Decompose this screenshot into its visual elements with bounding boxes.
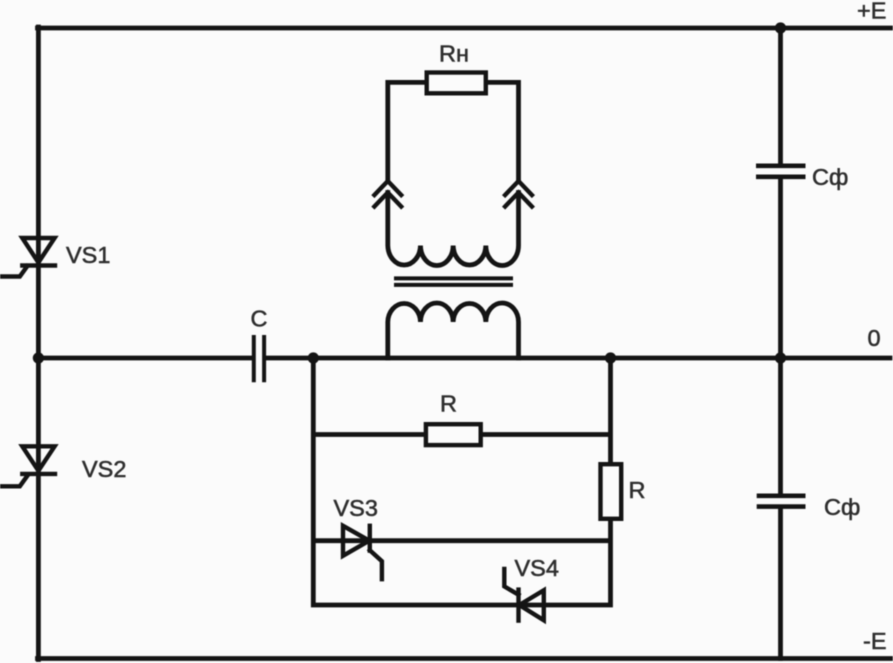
svg-text:VS3: VS3: [334, 495, 378, 521]
svg-text:VS2: VS2: [82, 456, 126, 482]
svg-text:VS4: VS4: [515, 555, 559, 581]
svg-text:R: R: [440, 391, 457, 417]
svg-text:+E: +E: [857, 0, 886, 23]
svg-text:R: R: [629, 477, 646, 503]
svg-text:Rн: Rн: [439, 41, 469, 67]
svg-text:Сф: Сф: [824, 494, 860, 520]
svg-text:-E: -E: [863, 628, 887, 654]
svg-text:C: C: [251, 306, 268, 332]
svg-text:VS1: VS1: [66, 242, 110, 268]
svg-text:Сф: Сф: [812, 164, 848, 190]
svg-text:0: 0: [868, 325, 881, 351]
